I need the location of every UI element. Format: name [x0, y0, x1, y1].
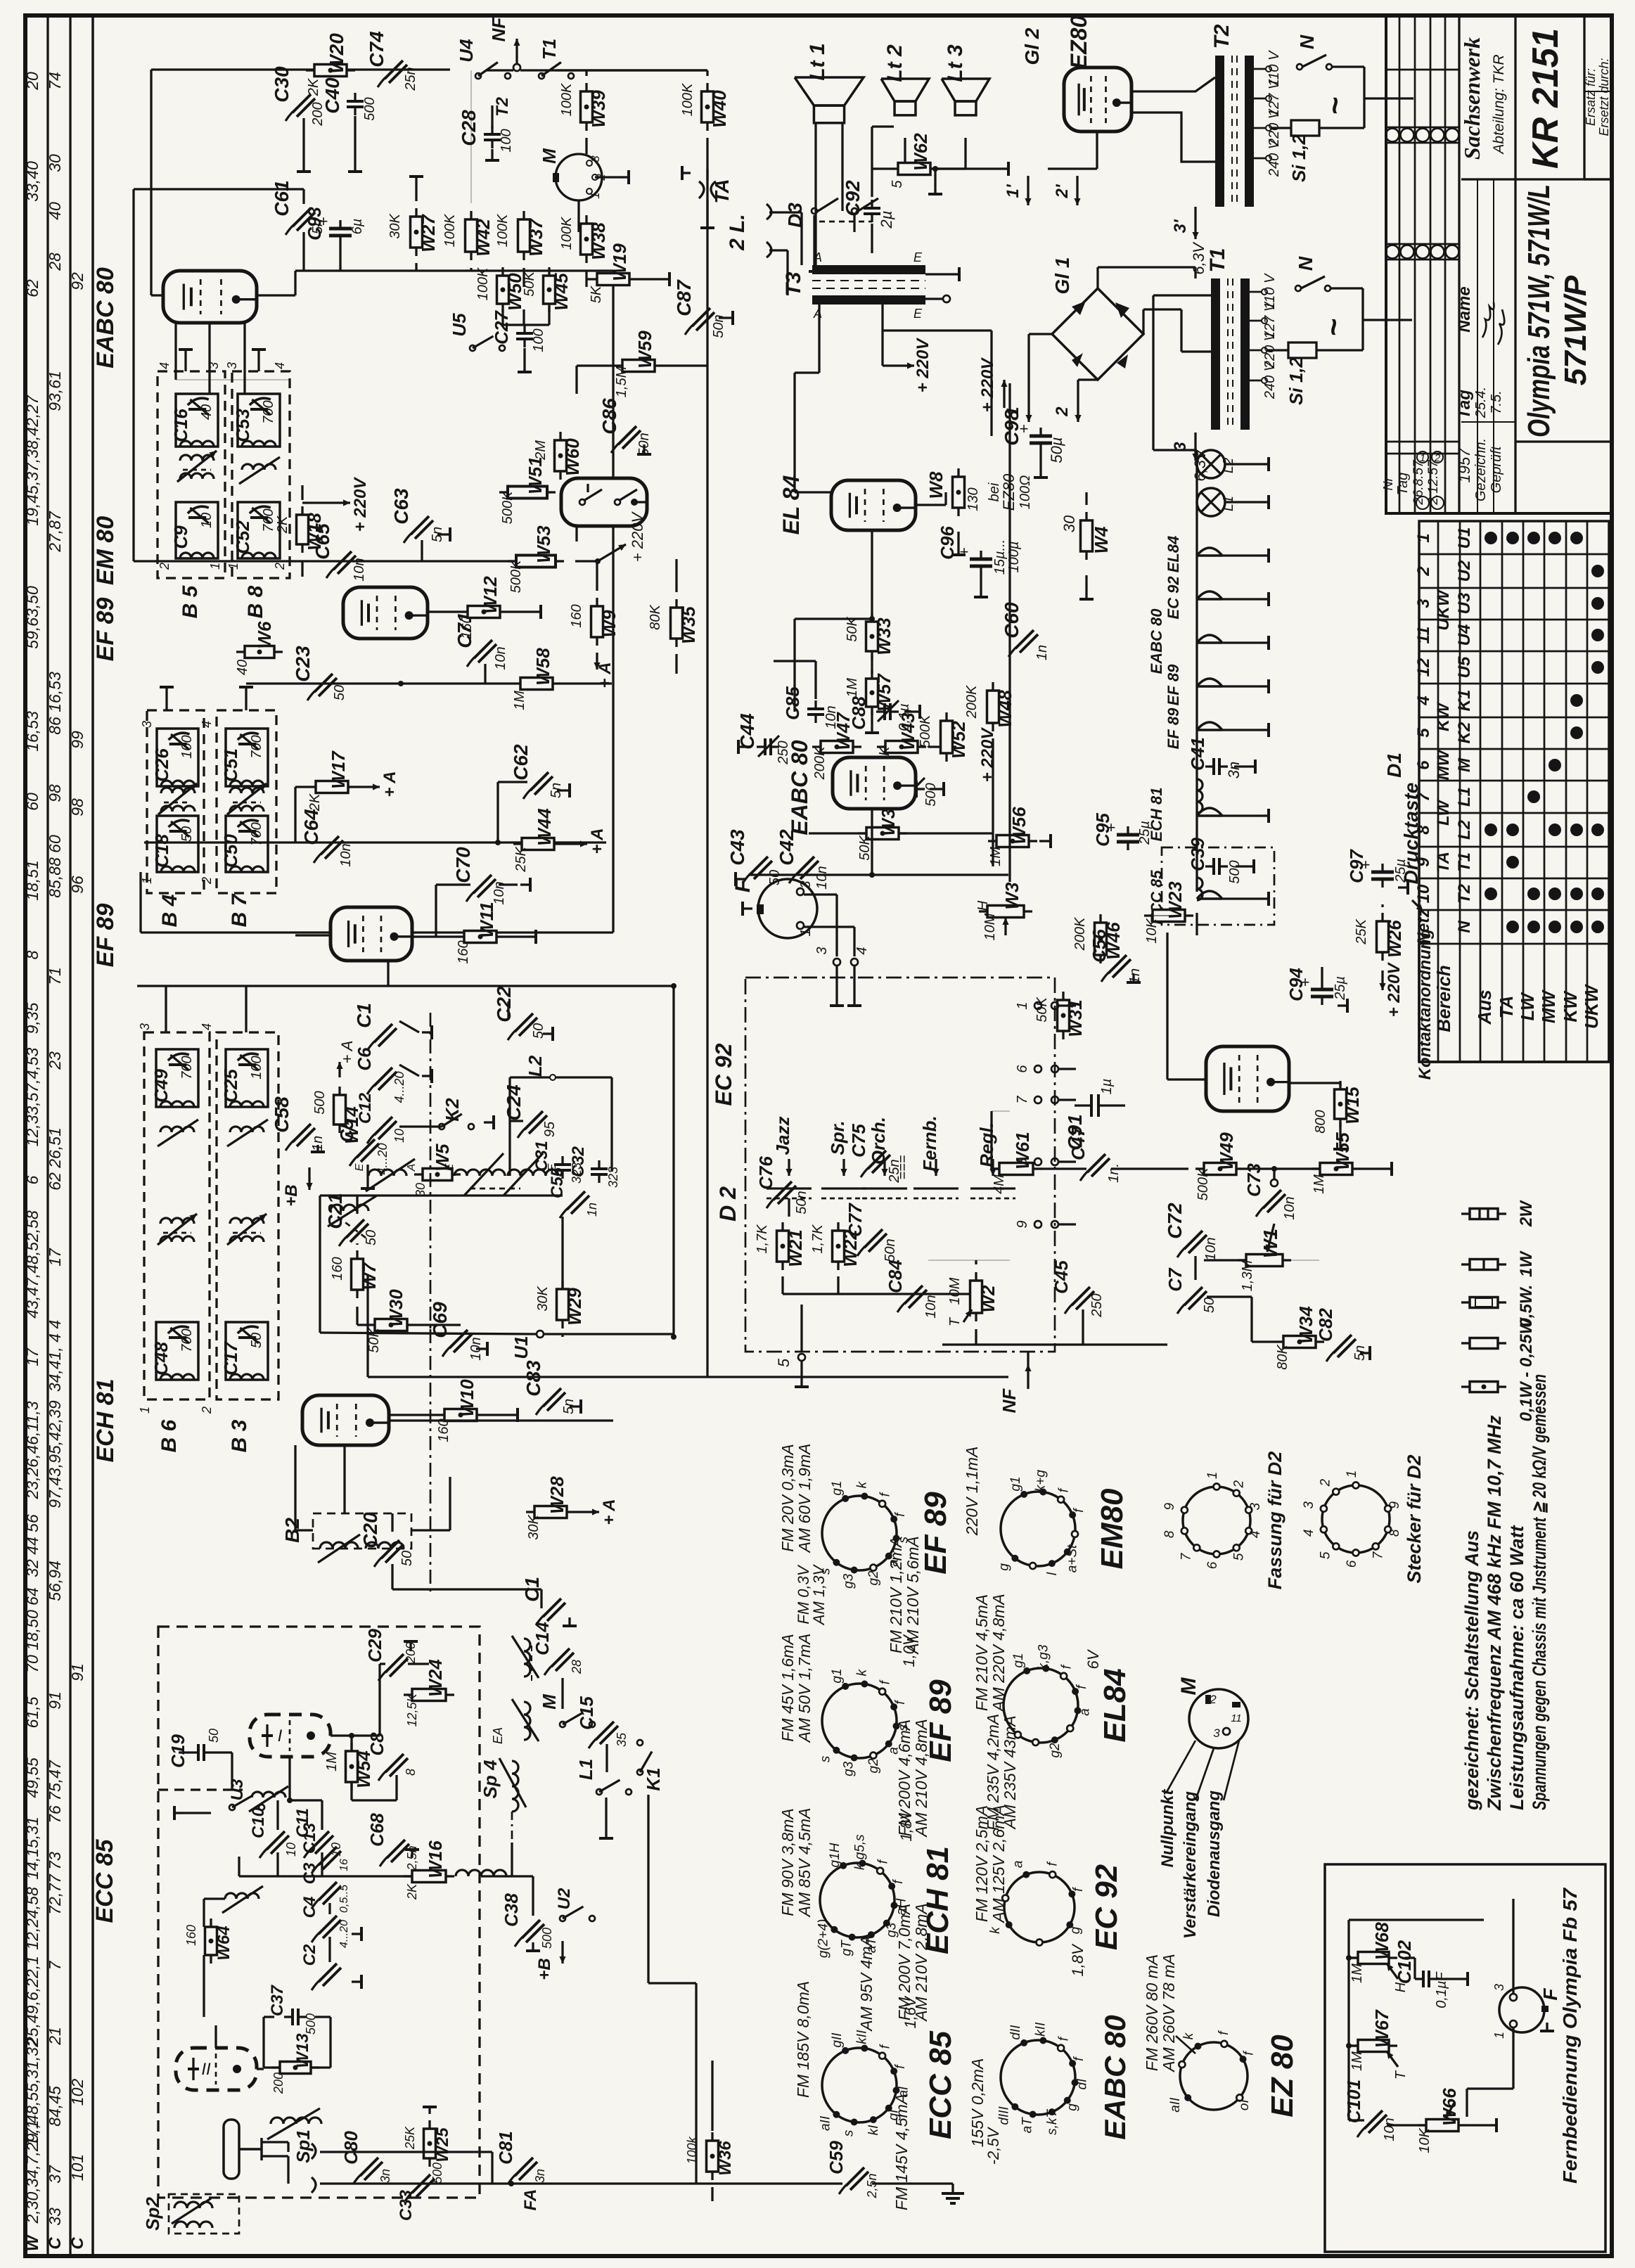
wire T3 down to EL84 — [818, 305, 820, 373]
svg-text:+ 220V: + 220V — [629, 511, 646, 563]
switch K1 — [637, 1769, 643, 1775]
svg-text:W62: W62 — [910, 133, 931, 171]
svg-text:C101: C101 — [1343, 2080, 1364, 2123]
svg-text:50: 50 — [249, 1333, 264, 1348]
svg-text:1M: 1M — [988, 847, 1004, 866]
svg-text:Name: Name — [1455, 286, 1474, 332]
capacitor C59 — [846, 2167, 864, 2186]
svg-text:EA: EA — [491, 1727, 505, 1744]
capacitor C102 — [1422, 1971, 1425, 1987]
svg-text:240 V: 240 V — [1267, 139, 1282, 177]
coupling coils B6 upper — [160, 1127, 194, 1132]
capacitor C10 — [267, 1831, 285, 1850]
svg-text:W11: W11 — [476, 902, 497, 938]
svg-text:1: 1 — [140, 877, 154, 884]
svg-text:EF 89: EF 89 — [918, 1492, 953, 1575]
svg-text:34,41, 4 4: 34,41, 4 4 — [46, 1320, 64, 1392]
wire main vertical x1436 — [1008, 383, 1011, 875]
capacitor C44 — [764, 738, 767, 755]
svg-text:L2: L2 — [1221, 458, 1236, 473]
ground main — [951, 2184, 954, 2193]
svg-text:5: 5 — [775, 1358, 793, 1367]
svg-text:Lt 3: Lt 3 — [944, 44, 967, 82]
svg-text:W33: W33 — [873, 617, 895, 655]
svg-text:g2: g2 — [866, 1758, 881, 1774]
svg-text:1: 1 — [1015, 1001, 1030, 1009]
wires B1 internals — [289, 1715, 290, 1753]
heater EABC80 — [1197, 635, 1222, 643]
coupling coils B6 lower — [160, 1218, 194, 1224]
svg-text:1n: 1n — [585, 1203, 599, 1217]
svg-text:T2: T2 — [493, 96, 512, 117]
svg-text:Spr.: Spr. — [827, 1120, 848, 1155]
trimmer row C2 — [319, 1963, 337, 1982]
svg-text:2 L.: 2 L. — [726, 214, 749, 251]
heater EF89 b — [1197, 722, 1222, 730]
resistor W49 — [1204, 1163, 1236, 1175]
capacitor C1 fm osc — [374, 1024, 392, 1042]
svg-text:C16: C16 — [170, 409, 191, 442]
svg-text:2: 2 — [200, 877, 214, 885]
coupling coil B8 — [242, 464, 276, 470]
resistor W15 — [1335, 1089, 1347, 1119]
svg-text:50: 50 — [531, 1023, 546, 1039]
svg-text:k,g3: k,g3 — [1037, 1644, 1051, 1670]
capacitor C31 — [554, 1163, 571, 1166]
capacitor C91 — [1090, 1094, 1093, 1117]
svg-text:10n: 10n — [338, 843, 354, 866]
svg-text:L2: L2 — [1455, 819, 1474, 840]
svg-text:EF 89: EF 89 — [92, 598, 119, 662]
svg-text:g3: g3 — [841, 1761, 856, 1776]
resistor W19 — [597, 274, 629, 286]
IF cell C52 — [238, 502, 280, 558]
svg-text:2: 2 — [1434, 452, 1441, 464]
svg-text:I: I — [278, 1726, 283, 1745]
IF cell C17 — [226, 1322, 268, 1380]
svg-text:W: W — [23, 2234, 42, 2251]
svg-text:1M: 1M — [1349, 1963, 1365, 1983]
svg-text:N: N — [1455, 921, 1474, 933]
svg-text:Olympia 571W, 571W/L: Olympia 571W, 571W/L — [1522, 184, 1556, 437]
socket ECC85 — [822, 2048, 897, 2122]
svg-text:ECC 85: ECC 85 — [923, 2030, 958, 2139]
svg-text:C45: C45 — [1051, 1260, 1072, 1294]
svg-text:II: II — [201, 2060, 211, 2079]
wire top bus — [151, 68, 450, 70]
svg-text:C9: C9 — [170, 525, 191, 549]
wire k1 vertical — [695, 1983, 697, 2184]
svg-text:ECH 81: ECH 81 — [92, 1378, 119, 1462]
svg-text:1W: 1W — [1517, 1250, 1536, 1277]
resistor W53 — [516, 556, 556, 568]
svg-text:W10: W10 — [456, 1379, 477, 1417]
svg-text:240 V: 240 V — [1262, 361, 1278, 399]
svg-text:500K: 500K — [508, 559, 524, 593]
svg-text:C1: C1 — [353, 1003, 375, 1028]
svg-text:60: 60 — [23, 793, 41, 811]
svg-text:B 8: B 8 — [244, 585, 267, 618]
resistor W34 — [1283, 1336, 1316, 1348]
svg-text:4: 4 — [1302, 1529, 1316, 1537]
svg-text:200: 200 — [271, 2072, 286, 2094]
lamp L1 — [1197, 488, 1225, 516]
svg-text:33,40: 33,40 — [23, 161, 41, 202]
svg-text:2K: 2K — [306, 77, 321, 96]
svg-text:TA: TA — [1434, 852, 1453, 873]
svg-text:33: 33 — [46, 2208, 64, 2226]
capacitor C38 — [522, 1920, 540, 1938]
svg-text:500: 500 — [540, 1928, 554, 1949]
svg-text:50µ: 50µ — [1048, 437, 1065, 463]
svg-text:W67: W67 — [1371, 2009, 1392, 2048]
svg-text:C33: C33 — [397, 2189, 416, 2221]
svg-text:g2: g2 — [1048, 1743, 1063, 1758]
svg-text:1M: 1M — [1312, 1174, 1327, 1194]
svg-text:1: 1 — [1205, 1472, 1220, 1480]
svg-text:AM 1,3V: AM 1,3V — [810, 1563, 828, 1626]
socket Stecker D2 — [1322, 1485, 1390, 1553]
wire tone bus — [975, 1260, 977, 1264]
svg-text:FM 45V 1,6mA: FM 45V 1,6mA — [778, 1634, 797, 1741]
ruler column lines — [46, 15, 49, 2256]
svg-text:8: 8 — [1414, 825, 1433, 835]
svg-text:W50: W50 — [504, 273, 525, 311]
capacitor C97 electrolytic — [1371, 871, 1394, 874]
arrow +B — [561, 1941, 563, 1963]
box Fernbedienung — [1325, 1864, 1605, 2252]
capacitor C24 — [525, 1111, 543, 1129]
svg-text:5: 5 — [1232, 1553, 1247, 1561]
svg-text:1M: 1M — [324, 1752, 340, 1772]
resistor W29 — [557, 1289, 569, 1320]
svg-text:C68: C68 — [366, 1813, 387, 1847]
svg-text:5: 5 — [1414, 728, 1433, 738]
svg-text:9: 9 — [1162, 1503, 1177, 1511]
svg-text:3: 3 — [589, 155, 602, 162]
svg-text:100K: 100K — [559, 216, 575, 250]
resistor W68 — [1358, 1952, 1389, 1964]
svg-text:12,33,57,4,53: 12,33,57,4,53 — [23, 1047, 41, 1146]
svg-text:200K: 200K — [812, 745, 828, 780]
wire shield vertical x612 — [430, 1013, 432, 1329]
svg-text:85,88 60: 85,88 60 — [46, 835, 64, 898]
svg-text:oI: oI — [1237, 2099, 1252, 2111]
capacitor C27 — [516, 332, 533, 335]
svg-text:EZ 80: EZ 80 — [1265, 2035, 1300, 2118]
svg-text:Sachsenwerk: Sachsenwerk — [1459, 37, 1485, 160]
svg-text:g1: g1 — [1011, 1653, 1026, 1667]
svg-text:160: 160 — [456, 940, 471, 963]
svg-text:10: 10 — [284, 1843, 298, 1857]
svg-text:40: 40 — [199, 404, 214, 420]
svg-text:AM 60V 1,9mA: AM 60V 1,9mA — [795, 1444, 814, 1554]
svg-text:Jazz: Jazz — [772, 1117, 793, 1155]
svg-text:FM 90V 3,8mA: FM 90V 3,8mA — [778, 1808, 797, 1916]
wire anode bus EL84 — [793, 619, 795, 712]
svg-text:2: 2 — [200, 1407, 214, 1414]
svg-text:2: 2 — [1232, 1480, 1247, 1489]
svg-text:11: 11 — [1231, 1712, 1242, 1724]
svg-text:7: 7 — [1371, 1551, 1386, 1559]
svg-text:k,g5,s: k,g5,s — [853, 1834, 868, 1870]
svg-text:25µ: 25µ — [1393, 859, 1409, 883]
capacitor C69 — [449, 1330, 468, 1348]
wire B5 top pins — [174, 352, 177, 380]
svg-text:25µ: 25µ — [1137, 821, 1153, 845]
svg-text:1: 1 — [589, 192, 602, 198]
svg-text:EF 89: EF 89 — [92, 904, 119, 968]
capacitor C86 — [618, 426, 636, 444]
svg-text:800: 800 — [1313, 1110, 1328, 1133]
svg-text:W47: W47 — [833, 712, 854, 750]
svg-text:W48: W48 — [994, 690, 1015, 728]
svg-text:C70: C70 — [452, 847, 474, 883]
heater ECH81 with coil — [1197, 779, 1203, 813]
arrow +220V w53 — [598, 544, 626, 561]
resistor W56 — [996, 835, 1029, 847]
resistor W23 — [1153, 910, 1185, 922]
capacitor C64 — [321, 836, 339, 854]
svg-text:W2: W2 — [977, 1285, 999, 1313]
svg-text:8: 8 — [23, 950, 41, 959]
svg-text:130: 130 — [966, 487, 981, 511]
resistor W42 — [466, 219, 477, 252]
svg-text:gII: gII — [830, 2032, 845, 2048]
svg-text:Gl 1: Gl 1 — [1051, 257, 1073, 295]
svg-text:2K: 2K — [405, 1883, 419, 1900]
svg-text:kII: kII — [1034, 2022, 1049, 2037]
IF cell C16 — [176, 394, 218, 447]
svg-text:+ 220V: + 220V — [1385, 962, 1404, 1018]
svg-text:C50: C50 — [220, 834, 241, 868]
contact U1 — [537, 1331, 544, 1338]
svg-text:Fassung für D2: Fassung für D2 — [1264, 1452, 1285, 1590]
svg-text:Gezeichn.: Gezeichn. — [1473, 438, 1489, 501]
resistor W13 — [280, 2062, 311, 2074]
svg-text:Lt 2: Lt 2 — [883, 44, 906, 82]
svg-text:10n: 10n — [352, 558, 367, 581]
svg-text:10: 10 — [1414, 884, 1433, 903]
svg-text:W55: W55 — [1332, 1132, 1353, 1170]
svg-text:C4: C4 — [300, 1897, 319, 1918]
svg-text:W26: W26 — [1384, 920, 1405, 958]
svg-text:6,3V: 6,3V — [1190, 241, 1207, 275]
svg-text:7: 7 — [1015, 1096, 1030, 1104]
svg-text:C30: C30 — [271, 66, 293, 103]
svg-text:6: 6 — [23, 1175, 41, 1184]
svg-text:W61: W61 — [1012, 1132, 1033, 1169]
svg-text:4: 4 — [854, 947, 870, 954]
capacitor C15 — [596, 1722, 614, 1740]
svg-text:23: 23 — [46, 1051, 64, 1070]
svg-text:W49: W49 — [1216, 1132, 1237, 1170]
svg-text:gezeichnet: Schaltstellung Aus: gezeichnet: Schaltstellung Aus — [1461, 1530, 1482, 1811]
svg-text:C31: C31 — [532, 1141, 551, 1172]
wire osc bus upper — [385, 1018, 386, 1127]
svg-text:A: A — [406, 1164, 418, 1172]
svg-text:3n: 3n — [378, 2169, 392, 2183]
svg-text:571W/P: 571W/P — [1558, 275, 1593, 385]
socket EF89 b — [822, 1684, 897, 1758]
wire speaker Lt2 Lt3 join — [904, 138, 906, 169]
svg-text:4...20: 4...20 — [338, 1920, 350, 1948]
wire w50 w45 bus — [501, 271, 504, 271]
svg-text:T1: T1 — [1455, 852, 1474, 872]
svg-text:M: M — [1177, 1677, 1200, 1696]
wire EZ80 to T2 — [1131, 77, 1215, 91]
svg-text:AM 220V 4,8mA: AM 220V 4,8mA — [989, 1594, 1008, 1712]
svg-text:11: 11 — [1414, 627, 1433, 644]
capacitor C1 main tuning — [543, 1599, 561, 1617]
wire top right link — [556, 69, 707, 71]
svg-text:1n: 1n — [1034, 645, 1050, 660]
resistor W33 — [866, 622, 878, 651]
svg-text:43,47,48,52,58: 43,47,48,52,58 — [23, 1210, 41, 1319]
svg-text:k: k — [855, 1480, 870, 1488]
svg-text:Ersetzt durch:: Ersetzt durch: — [1597, 58, 1611, 136]
coupling coils B7 — [230, 788, 264, 793]
svg-text:Fernbedienung Olympia Fb 57: Fernbedienung Olympia Fb 57 — [1559, 1888, 1581, 2184]
svg-text:C82: C82 — [1315, 1308, 1336, 1342]
wire EABC80 to B5 — [174, 323, 177, 352]
svg-text:W18: W18 — [304, 513, 325, 551]
svg-text:1': 1' — [1004, 184, 1022, 198]
svg-text:95: 95 — [542, 1121, 558, 1137]
dashed box B5 — [158, 371, 225, 578]
svg-text:~: ~ — [1318, 96, 1352, 115]
svg-text:KR 2151: KR 2151 — [1525, 28, 1566, 169]
svg-text:18,51: 18,51 — [23, 860, 41, 901]
title block outline — [1386, 15, 1612, 513]
svg-text:74: 74 — [46, 72, 64, 90]
svg-text:K1: K1 — [643, 1767, 664, 1790]
svg-text:C: C — [46, 2237, 65, 2250]
svg-text:Tag: Tag — [1455, 390, 1474, 419]
capacitor C22 — [515, 1013, 533, 1032]
svg-text:700: 700 — [179, 1328, 195, 1352]
resistor W47 — [821, 741, 853, 753]
resistor W25 — [424, 2129, 436, 2158]
svg-text:30: 30 — [1060, 515, 1078, 532]
coupling coils B4 — [161, 788, 195, 793]
resistor W2 — [970, 1281, 982, 1313]
capacitor C23 — [314, 674, 333, 692]
capacitor C76 — [774, 1181, 792, 1200]
svg-text:500: 500 — [362, 97, 378, 120]
terminal 1 — [1027, 394, 1030, 422]
connector F circle — [758, 879, 817, 938]
heater EL84 — [1197, 548, 1222, 556]
svg-text:g1H: g1H — [828, 1843, 842, 1867]
svg-text:C6: C6 — [354, 1047, 375, 1071]
wire D2 bottom bus — [781, 1276, 783, 1294]
svg-text:+ 220V: + 220V — [978, 357, 997, 413]
capacitor C62 — [530, 772, 549, 790]
capacitor C65 — [333, 551, 352, 570]
svg-text:W64: W64 — [214, 1926, 233, 1960]
label 3 63V lower — [1194, 433, 1196, 461]
capacitor C37 — [291, 2008, 294, 2025]
svg-text:W40: W40 — [709, 90, 730, 128]
terminal 2prime — [1076, 176, 1078, 205]
resistor W44 — [522, 838, 554, 850]
svg-text:+ A: + A — [380, 771, 399, 797]
svg-text:kI: kI — [866, 2125, 881, 2136]
svg-text:700: 700 — [261, 400, 276, 423]
resistor W14 — [334, 1095, 346, 1125]
svg-text:g: g — [1068, 1926, 1083, 1934]
svg-text:W3: W3 — [1001, 882, 1022, 910]
svg-text:100K: 100K — [680, 82, 695, 116]
svg-text:C76: C76 — [755, 1156, 776, 1190]
transformer T3 bars — [812, 265, 925, 274]
svg-text:+: + — [960, 543, 969, 560]
svg-text:W29: W29 — [564, 1288, 585, 1326]
svg-text:T: T — [1393, 2070, 1409, 2080]
svg-text:28: 28 — [46, 252, 64, 271]
capacitor C43 — [750, 857, 768, 875]
coil Sp4 — [512, 1761, 518, 1812]
svg-text:aT: aT — [1020, 2117, 1034, 2134]
svg-text:aII: aII — [819, 2115, 833, 2131]
svg-text:AM 50V 1,7mA: AM 50V 1,7mA — [795, 1634, 814, 1744]
svg-text:10: 10 — [392, 1129, 406, 1143]
svg-text:EM80: EM80 — [1095, 1488, 1129, 1569]
svg-text:W9: W9 — [598, 610, 620, 638]
svg-text:4: 4 — [200, 1023, 214, 1030]
svg-text:C63: C63 — [390, 488, 412, 525]
svg-text:5: 5 — [1318, 1551, 1333, 1559]
resistor W20 — [314, 65, 347, 77]
svg-text:C59: C59 — [826, 2141, 847, 2174]
svg-text:96: 96 — [68, 876, 86, 894]
svg-text:9: 9 — [1015, 1220, 1030, 1228]
svg-text:59,63,50: 59,63,50 — [23, 586, 41, 649]
wire T1 left down — [1153, 294, 1211, 296]
svg-text:k+g: k+g — [1034, 1470, 1049, 1492]
dashed box B4 — [147, 710, 204, 893]
svg-text:4...20: 4...20 — [392, 1071, 406, 1103]
svg-text:g3: g3 — [841, 1573, 856, 1589]
resistor W40 — [702, 91, 714, 122]
svg-text:FM 120V 2,5mA: FM 120V 2,5mA — [973, 1805, 991, 1922]
svg-text:2µ: 2µ — [878, 211, 895, 229]
capacitor C28 — [484, 133, 501, 136]
svg-text:1M: 1M — [512, 691, 527, 710]
svg-text:FA: FA — [521, 2189, 540, 2211]
svg-text:16,53: 16,53 — [23, 711, 41, 752]
svg-text:Spannungen gegen Chassis mit J: Spannungen gegen Chassis mit Jnstrument … — [1529, 1374, 1550, 1810]
capacitor C30 — [293, 94, 311, 113]
svg-text:25n: 25n — [887, 1159, 902, 1183]
svg-text:TA: TA — [711, 179, 733, 203]
svg-text:160: 160 — [184, 1925, 198, 1946]
svg-text:17: 17 — [23, 1347, 41, 1366]
tube EF89 second — [331, 907, 412, 961]
svg-text:W4: W4 — [1091, 526, 1112, 554]
switch U5 — [470, 345, 475, 351]
svg-text:C18: C18 — [151, 834, 172, 868]
svg-text:72,77 73: 72,77 73 — [46, 1852, 64, 1915]
svg-text:7: 7 — [46, 1960, 64, 1970]
svg-text:FM 145V 4,5mA: FM 145V 4,5mA — [892, 2094, 911, 2210]
svg-text:C23: C23 — [292, 646, 314, 682]
trimmer C3 — [319, 1882, 337, 1900]
connector TA — [699, 181, 704, 198]
svg-text:9: 9 — [1414, 857, 1433, 867]
svg-text:160: 160 — [330, 1257, 345, 1280]
